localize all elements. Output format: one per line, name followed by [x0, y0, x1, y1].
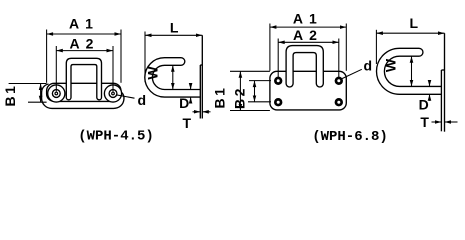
- svg-text:B1: B1: [2, 84, 18, 107]
- svg-text:T: T: [420, 114, 429, 130]
- svg-text:(WPH-6.8): (WPH-6.8): [312, 129, 388, 145]
- svg-text:(WPH-4.5): (WPH-4.5): [78, 129, 154, 145]
- svg-text:L: L: [170, 19, 179, 35]
- svg-text:A2: A2: [293, 27, 323, 43]
- svg-text:B2: B2: [232, 86, 248, 109]
- svg-text:D: D: [179, 95, 189, 111]
- svg-text:D: D: [419, 96, 429, 112]
- svg-text:d: d: [364, 58, 373, 74]
- svg-text:W: W: [383, 58, 399, 72]
- svg-text:A1: A1: [69, 16, 99, 32]
- svg-text:T: T: [183, 115, 192, 131]
- svg-text:L: L: [410, 15, 419, 31]
- svg-text:W: W: [145, 66, 161, 80]
- svg-text:d: d: [138, 92, 147, 108]
- svg-text:A1: A1: [293, 10, 323, 26]
- svg-text:B1: B1: [212, 86, 228, 109]
- svg-text:A2: A2: [70, 35, 100, 51]
